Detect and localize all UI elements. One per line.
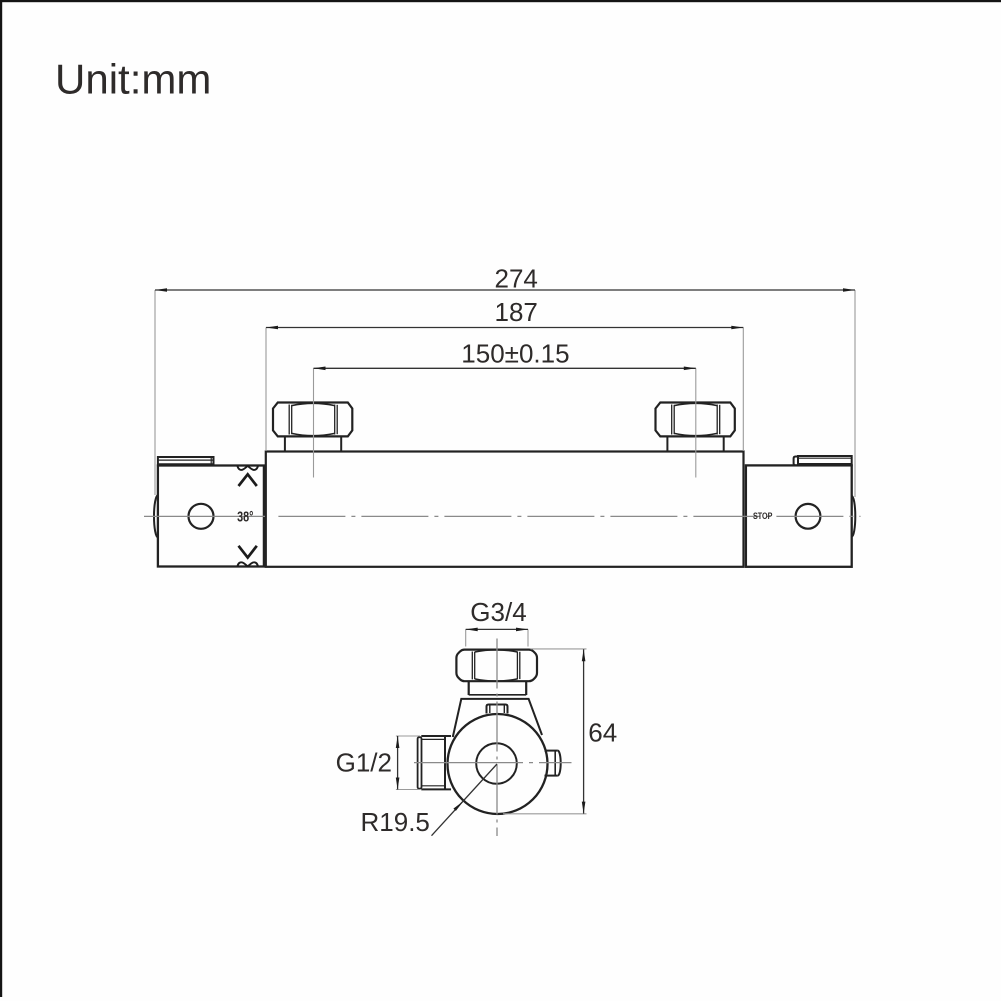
- 64 extension bottom: [503, 813, 587, 815]
- right hex nut: [656, 403, 735, 437]
- left port G1/2: [418, 736, 451, 789]
- 64 dimension line: [583, 649, 585, 813]
- top curly mark: [237, 466, 258, 470]
- svg-text:G1/2: G1/2: [336, 748, 392, 778]
- left hex nut: [273, 403, 352, 437]
- dimension 274 arrows: [155, 288, 855, 292]
- left cap hole circle: [189, 504, 214, 529]
- centerline dash-dot right segment: [278, 515, 860, 517]
- extension centerline right nut: [695, 368, 697, 477]
- svg-text:38°: 38°: [237, 508, 253, 525]
- extension centerline left nut: [313, 368, 315, 477]
- bottom curly mark: [237, 562, 258, 566]
- svg-text:150±0.15: 150±0.15: [461, 339, 569, 369]
- left end cap: [158, 466, 264, 567]
- frame border left: [0, 0, 2, 997]
- right end cap: [746, 465, 852, 566]
- G1/2 arrows: [396, 736, 400, 790]
- bottom hex nut G3/4: [456, 650, 537, 682]
- svg-text:R19.5: R19.5: [361, 807, 430, 837]
- R19.5 leader line: [432, 764, 498, 836]
- vertical centerline: [496, 639, 498, 837]
- left cap flange: [158, 457, 214, 466]
- svg-text:STOP: STOP: [753, 511, 773, 521]
- bottom nut neck: [469, 682, 527, 695]
- 64 arrows: [582, 649, 586, 813]
- dimension 150 line: [314, 367, 696, 369]
- extension line 274 left: [154, 290, 156, 495]
- dimension 187 arrows: [266, 326, 743, 330]
- svg-text:Unit:mm: Unit:mm: [55, 56, 211, 103]
- trapezoid shoulder: [453, 699, 542, 737]
- 64 extension top: [531, 648, 587, 650]
- dimension 187 line: [266, 327, 743, 329]
- R19.5 leader arrow: [453, 801, 463, 811]
- top tab: [487, 705, 508, 714]
- extension line 187 left: [265, 328, 267, 452]
- extension line 187 right: [742, 328, 744, 452]
- dimension 150 arrows: [314, 367, 696, 371]
- inner circle: [476, 743, 517, 784]
- right cap end arc: [852, 496, 856, 537]
- chevron down: [239, 546, 257, 558]
- G3/4 extension lines: [466, 629, 528, 646]
- right cap flange: [794, 456, 852, 465]
- left nut neck: [285, 437, 341, 452]
- G1/2 dimension line: [397, 736, 399, 790]
- G3/4 arrows: [466, 628, 528, 632]
- right nut neck: [667, 437, 723, 452]
- centerline solid left segment: [144, 515, 265, 517]
- svg-text:G3/4: G3/4: [470, 597, 526, 627]
- G1/2 extension lines: [396, 736, 420, 790]
- big circle: [448, 714, 548, 814]
- chevron up: [239, 474, 257, 486]
- dimension 274 line: [155, 289, 855, 291]
- svg-text:187: 187: [495, 297, 538, 327]
- extension line 274 right: [854, 290, 856, 497]
- main body: [266, 452, 744, 567]
- right cap hole circle: [796, 504, 821, 529]
- G3/4 dimension line: [466, 628, 528, 630]
- frame border top: [0, 0, 1001, 2]
- horizontal centerline: [414, 762, 572, 764]
- svg-text:64: 64: [588, 718, 617, 748]
- right port stub: [545, 751, 561, 776]
- svg-text:274: 274: [495, 264, 538, 294]
- left cap end arc: [154, 495, 158, 537]
